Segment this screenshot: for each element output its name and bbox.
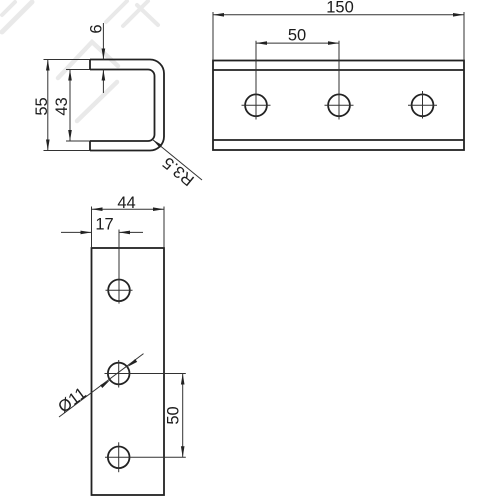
svg-text:44: 44 xyxy=(117,194,135,212)
svg-text:50: 50 xyxy=(165,406,183,424)
svg-text:50: 50 xyxy=(288,27,306,45)
svg-text:43: 43 xyxy=(53,97,71,115)
svg-text:6: 6 xyxy=(88,24,106,33)
svg-text:55: 55 xyxy=(33,97,51,115)
svg-text:17: 17 xyxy=(95,216,113,234)
svg-text:150: 150 xyxy=(326,0,354,17)
